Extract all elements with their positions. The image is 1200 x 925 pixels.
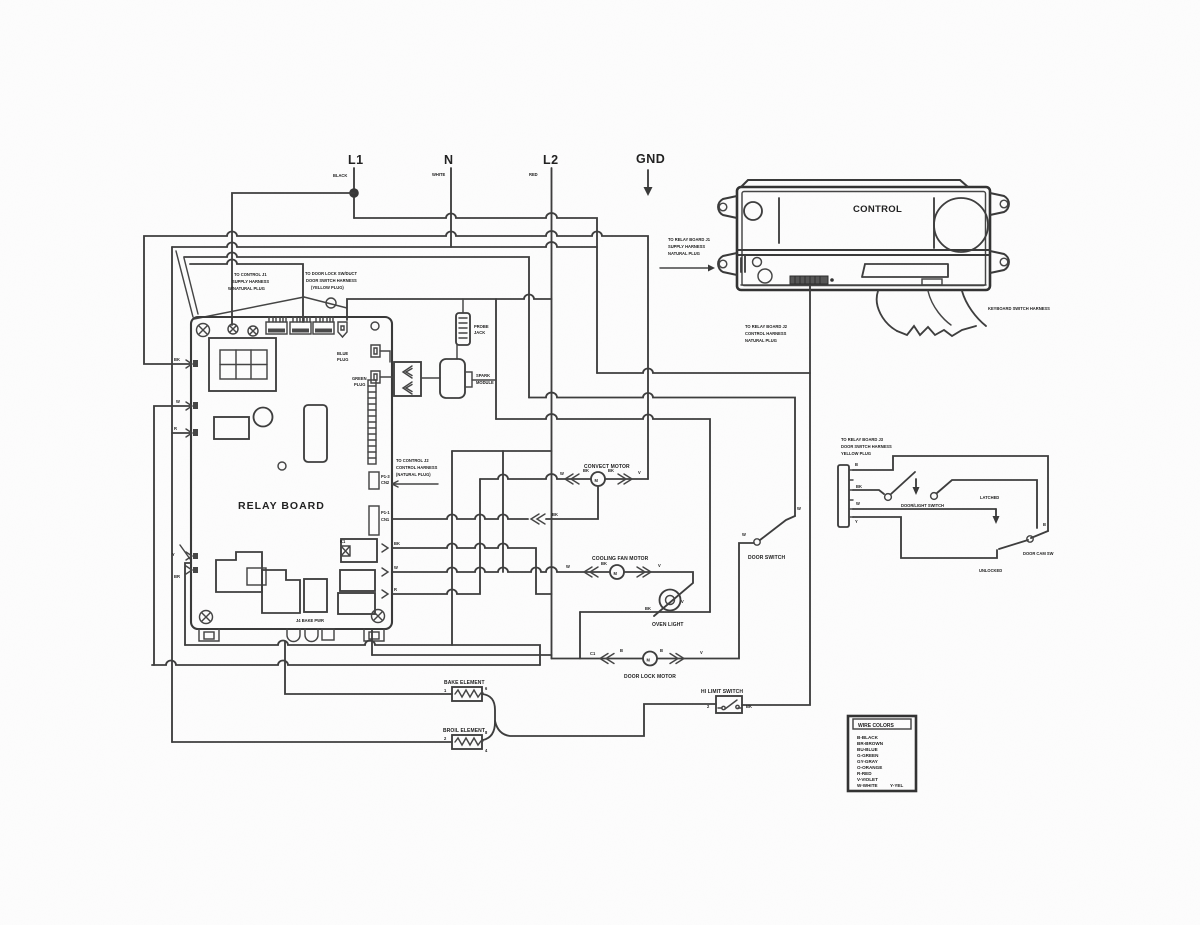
svg-text:V: V: [681, 599, 684, 604]
svg-text:TO RELAY BOARD J1: TO RELAY BOARD J1: [668, 237, 711, 242]
wire P3 unlocked: [853, 508, 996, 510]
svg-text:K1: K1: [340, 539, 346, 544]
svg-text:W-WHITE: W-WHITE: [857, 783, 878, 788]
svg-text:CN1: CN1: [381, 517, 390, 522]
svg-text:BK: BK: [552, 512, 558, 517]
svg-text:BLACK: BLACK: [333, 173, 347, 178]
svg-text:CONTROL: CONTROL: [853, 204, 902, 215]
wire x452 drop: [451, 451, 453, 645]
wire W1 board to door lock feed: [393, 544, 552, 595]
svg-text:GY-GRAY: GY-GRAY: [857, 759, 878, 764]
svg-text:Y: Y: [855, 519, 858, 524]
keyboard ribbon fold: [928, 291, 951, 325]
svg-text:M: M: [595, 478, 599, 483]
svg-text:TO DOOR LOCK SW/DUCT: TO DOOR LOCK SW/DUCT: [305, 271, 358, 276]
circle bottom band 2: [758, 269, 772, 283]
wire below board y665: [152, 661, 540, 665]
wire y373 run to control J2 line: [597, 369, 810, 373]
control box outline: [737, 187, 990, 290]
svg-text:O-ORANGE: O-ORANGE: [857, 765, 882, 770]
svg-text:L1: L1: [348, 153, 364, 167]
probe jack stubs: [457, 299, 463, 359]
bottom plug hook 2: [305, 629, 318, 642]
svg-text:NATURAL PLUG: NATURAL PLUG: [745, 338, 777, 343]
wire module to drop: [472, 379, 496, 381]
svg-text:CONVECT MOTOR: CONVECT MOTOR: [584, 464, 630, 470]
wire W3 board run: [393, 479, 480, 594]
svg-text:BK: BK: [746, 704, 752, 709]
wire green plug to interlock: [380, 376, 394, 378]
svg-text:GND: GND: [636, 152, 665, 166]
svg-text:P1-3: P1-3: [381, 474, 390, 479]
right ear bottom: [990, 251, 1009, 273]
convect row wire: [480, 474, 648, 479]
svg-text:TO RELAY BOARD J2: TO RELAY BOARD J2: [745, 324, 788, 329]
control inner bottom line: [741, 284, 986, 286]
cooling chevrons right: [637, 567, 651, 577]
svg-text:Y-YEL: Y-YEL: [890, 783, 903, 788]
edge connector mark: [741, 256, 745, 272]
left edge lower terminal marks: [186, 552, 192, 574]
svg-text:W: W: [797, 506, 801, 511]
relay shape 4: [341, 539, 377, 562]
svg-text:W: W: [394, 565, 398, 570]
wire N drop: [450, 168, 452, 247]
hi limit contacts: [718, 700, 741, 709]
door light switch circle 2: [931, 493, 938, 500]
vertical slot: [304, 405, 327, 462]
wire L1 to left bundle: [232, 193, 354, 325]
tiny part: [341, 546, 350, 556]
control divider band: [737, 250, 990, 255]
door cam switch blade: [999, 531, 1048, 549]
right edge terminal mark W1: [382, 544, 388, 552]
wire L2 long drop to door lock row: [551, 168, 553, 659]
big circle right: [934, 198, 988, 252]
convect motor M1: [591, 472, 605, 486]
wire roof diagonal left: [194, 297, 304, 319]
green plug symbol 2: [371, 371, 380, 383]
wire loop D to board top plug: [190, 260, 303, 323]
door light switch blade 2: [937, 480, 1037, 528]
svg-text:BK: BK: [645, 606, 651, 611]
wire elements junction to hi-limit: [495, 704, 716, 736]
svg-text:G-GREEN: G-GREEN: [857, 753, 879, 758]
right edge terminal mark W3: [382, 590, 388, 598]
svg-text:W: W: [856, 501, 860, 506]
svg-text:BAKE ELEMENT: BAKE ELEMENT: [444, 680, 485, 686]
screw bottom-right: [372, 610, 385, 623]
svg-text:BLUE: BLUE: [337, 351, 348, 356]
small rect component: [214, 417, 249, 439]
wire interlock to module: [421, 377, 440, 379]
unlocked arrow: [995, 509, 997, 517]
svg-text:N: N: [444, 153, 454, 167]
wire bake feed drop: [285, 641, 452, 694]
wire y451 link: [452, 450, 552, 452]
wire green plug top link: [380, 351, 390, 362]
svg-text:R: R: [174, 426, 177, 431]
legend wire colors box: [848, 716, 916, 791]
hi limit switch box: [716, 696, 742, 713]
svg-text:BK: BK: [394, 541, 400, 546]
svg-text:RELAY BOARD: RELAY BOARD: [238, 500, 325, 512]
blue plug symbol: [338, 322, 347, 337]
wire P1 to door cam switch: [853, 456, 1048, 531]
door switch contact circle: [754, 539, 760, 545]
svg-text:DOOR/LIGHT SWITCH: DOOR/LIGHT SWITCH: [901, 503, 944, 508]
wire oven light row y612: [580, 611, 710, 613]
svg-text:W: W: [560, 471, 564, 476]
small circle bottom band: [753, 258, 762, 267]
svg-text:M: M: [614, 571, 618, 576]
door switch blade: [760, 516, 795, 540]
door light switch blade 1: [891, 472, 915, 494]
relay shape 1: [216, 552, 262, 592]
connector J1C: [313, 322, 334, 334]
terminal mark y364: [186, 360, 192, 368]
cooling fan motor M2: [610, 565, 624, 579]
pin circle 1: [228, 324, 238, 334]
svg-text:WHITE: WHITE: [432, 172, 445, 177]
wire broil feed: [172, 741, 452, 743]
svg-text:V: V: [638, 470, 641, 475]
wire bake right drop: [482, 694, 495, 740]
svg-text:BK: BK: [601, 561, 607, 566]
svg-text:V: V: [658, 563, 661, 568]
svg-text:BK: BK: [608, 468, 614, 473]
svg-text:HI LIMIT SWITCH: HI LIMIT SWITCH: [701, 689, 743, 695]
inner circle left: [744, 202, 762, 220]
wire loop B to cooling drop: [172, 242, 597, 433]
relay shape 2: [262, 570, 300, 613]
small hole: [278, 462, 286, 470]
convect chevrons right: [618, 474, 632, 484]
svg-text:W/NATURAL PLUG: W/NATURAL PLUG: [228, 286, 265, 291]
svg-text:BK: BK: [583, 468, 589, 473]
svg-text:TO CONTROL J2: TO CONTROL J2: [396, 458, 429, 463]
wire P4 bottom run: [853, 517, 997, 558]
keyboard ribbon right edge: [962, 291, 986, 326]
sensor module: [440, 359, 465, 398]
relay shape 5: [340, 570, 375, 591]
ground arrow: [647, 170, 649, 188]
connector J1B: [290, 322, 311, 334]
svg-text:TO RELAY BOARD J3: TO RELAY BOARD J3: [841, 437, 884, 442]
svg-text:W: W: [566, 564, 570, 569]
svg-text:BR-BROWN: BR-BROWN: [857, 741, 884, 746]
node L1 junction dot: [349, 188, 359, 198]
plunger arrow: [915, 479, 917, 489]
arrow to J1 plug: [660, 267, 708, 269]
wire y652 link: [372, 654, 552, 656]
interlock chevron box: [394, 362, 421, 396]
wire loop A to convect drop: [144, 231, 648, 479]
svg-text:B: B: [660, 648, 663, 653]
wire control J2 long drop: [742, 286, 810, 705]
bake element coil: [455, 690, 483, 697]
wire x372 bottom stub: [371, 630, 373, 655]
svg-text:DOOR SWITCH HARNESS: DOOR SWITCH HARNESS: [841, 444, 892, 449]
wire P2 to door light switch: [853, 490, 884, 494]
bake element box: [452, 687, 482, 701]
relay shape 3: [304, 579, 327, 612]
svg-text:TO CONTROL J1: TO CONTROL J1: [234, 272, 267, 277]
relay board outline: [191, 317, 392, 629]
screw top-left: [197, 324, 210, 337]
svg-text:(NATURAL PLUG): (NATURAL PLUG): [396, 472, 431, 477]
oven light lamp: [660, 590, 681, 611]
pin circle 2: [248, 326, 258, 336]
svg-text:V: V: [700, 650, 703, 655]
bottom plug hook 1: [287, 629, 300, 642]
svg-text:J4 BAKE PWR: J4 BAKE PWR: [296, 618, 324, 623]
svg-text:C1: C1: [590, 651, 596, 656]
wire loop C: [184, 253, 529, 398]
svg-text:W: W: [176, 399, 180, 404]
svg-text:BK: BK: [856, 484, 862, 489]
svg-text:MODULE: MODULE: [476, 380, 494, 385]
svg-text:JACK: JACK: [474, 330, 485, 335]
svg-text:DOOR SWITCH HARNESS: DOOR SWITCH HARNESS: [306, 278, 357, 283]
circle component: [254, 408, 273, 427]
wire blue plug to L2: [347, 295, 552, 321]
svg-text:PROBE: PROBE: [474, 324, 489, 329]
wire below board y645: [185, 641, 540, 666]
svg-text:NATURAL PLUG: NATURAL PLUG: [668, 251, 700, 256]
svg-text:BR: BR: [174, 574, 180, 579]
svg-text:LATCHED: LATCHED: [980, 495, 999, 500]
door light switch circle 1: [885, 494, 892, 501]
svg-text:Y: Y: [172, 552, 175, 557]
harness loop circle: [326, 298, 336, 308]
svg-text:OVEN LIGHT: OVEN LIGHT: [652, 622, 684, 628]
hole circle: [371, 322, 379, 330]
svg-text:R: R: [394, 587, 397, 592]
right ear top: [990, 193, 1009, 215]
keyboard slot: [862, 264, 948, 277]
connector J1A: [266, 322, 287, 334]
svg-text:GREEN: GREEN: [352, 376, 367, 381]
inner divider line right: [933, 198, 935, 248]
svg-text:B: B: [855, 462, 858, 467]
svg-text:SPARK: SPARK: [476, 373, 490, 378]
legend header: [853, 719, 911, 729]
door lock motor M3: [643, 652, 657, 666]
wire left loop2: [154, 406, 190, 665]
svg-text:B: B: [1043, 522, 1046, 527]
transformer grid: [220, 350, 267, 379]
svg-text:PLUG: PLUG: [354, 382, 365, 387]
wire L1 drop: [353, 168, 355, 218]
relay shape 6: [338, 593, 375, 614]
door lock chevrons right: [670, 654, 684, 664]
door lock row wire: [552, 543, 755, 659]
broil element box: [452, 735, 482, 749]
wire L1 feed H1 to right drop: [354, 213, 597, 373]
svg-text:KEYBOARD SWITCH HARNESS: KEYBOARD SWITCH HARNESS: [988, 306, 1050, 311]
connector block B: [369, 506, 379, 535]
svg-text:DOOR SWITCH: DOOR SWITCH: [748, 555, 785, 561]
svg-text:B-BLACK: B-BLACK: [857, 735, 879, 740]
keyboard slot tab: [922, 279, 942, 285]
wire x503 drop: [502, 451, 504, 572]
svg-text:M: M: [647, 658, 651, 663]
svg-text:DOOR CAM SW: DOOR CAM SW: [1023, 551, 1054, 556]
J3 connector: [838, 465, 849, 527]
door cam switch circle: [1027, 536, 1033, 542]
control box top lip: [741, 180, 968, 187]
svg-text:CN2: CN2: [381, 480, 390, 485]
inner divider line left: [778, 198, 780, 243]
svg-text:BROIL ELEMENT: BROIL ELEMENT: [443, 728, 485, 734]
svg-text:B: B: [620, 648, 623, 653]
terminal mark y433: [186, 429, 192, 437]
screw bottom-left: [200, 611, 213, 624]
wire bundle diagonal 1: [176, 251, 193, 317]
wire loop B vertical left: [171, 247, 173, 742]
J2 connector strip: [368, 380, 376, 464]
door lock chevrons left: [600, 654, 614, 664]
svg-text:BK: BK: [174, 357, 180, 362]
convect chevrons left: [565, 474, 579, 484]
keyboard ribbon bottom zigzag: [897, 326, 976, 336]
cooling chevrons left: [584, 567, 598, 577]
cooling row wire: [393, 567, 693, 616]
relay inner rect: [247, 568, 266, 585]
probe jack: [456, 313, 470, 345]
left ear top: [718, 196, 737, 218]
transformer outer: [209, 338, 276, 391]
svg-text:V-VIOLET: V-VIOLET: [857, 777, 878, 782]
svg-text:YELLOW PLUG: YELLOW PLUG: [841, 451, 871, 456]
svg-text:L2: L2: [543, 153, 559, 167]
wire bundle diagonal 2: [184, 258, 198, 314]
svg-text:R-RED: R-RED: [857, 771, 872, 776]
svg-text:P1-1: P1-1: [381, 510, 390, 515]
svg-text:PLUG: PLUG: [337, 357, 348, 362]
svg-text:RED: RED: [529, 172, 538, 177]
wire y397 run to door switch drop: [529, 393, 795, 516]
left ear bottom: [718, 253, 737, 275]
right edge terminal mark W2: [382, 568, 388, 576]
right foot: [364, 629, 384, 641]
svg-text:SUPPLY HARNESS: SUPPLY HARNESS: [232, 279, 269, 284]
svg-text:CONTROL HARNESS: CONTROL HARNESS: [396, 465, 438, 470]
wire roof diagonal right: [304, 297, 347, 308]
wire door lock left drop: [579, 612, 581, 659]
svg-text:CONTROL HARNESS: CONTROL HARNESS: [745, 331, 787, 336]
terminal mark y406: [186, 402, 192, 410]
chevron on y519: [531, 514, 545, 524]
svg-text:UNLOCKED: UNLOCKED: [979, 568, 1002, 573]
broil element coil: [455, 738, 483, 745]
keyboard ribbon left edge: [877, 291, 897, 331]
svg-text:WIRE COLORS: WIRE COLORS: [858, 723, 894, 729]
svg-text:SUPPLY HARNESS: SUPPLY HARNESS: [668, 244, 705, 249]
arrow to board J2: [392, 481, 438, 487]
wire y419 run to oven light drop: [496, 414, 710, 612]
svg-text:DOOR LOCK MOTOR: DOOR LOCK MOTOR: [624, 674, 676, 680]
left foot: [199, 629, 219, 641]
green plug symbol 1: [371, 345, 380, 357]
wire left inner drop: [185, 563, 191, 645]
bottom small rect: [322, 629, 334, 640]
svg-text:W: W: [742, 532, 746, 537]
connector block A: [369, 472, 379, 489]
svg-text:BU-BLUE: BU-BLUE: [857, 747, 878, 752]
J2 connector hatched: [790, 276, 828, 284]
svg-text:(YELLOW PLUG): (YELLOW PLUG): [311, 285, 344, 290]
wire convect return y519: [393, 487, 598, 519]
